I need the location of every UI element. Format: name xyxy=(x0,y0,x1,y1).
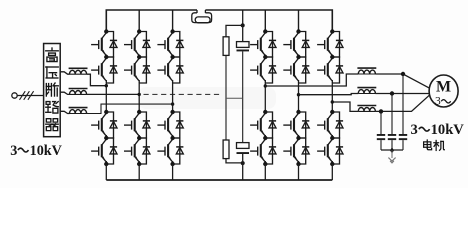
wire phase C to leg 3 midpoint xyxy=(87,104,174,113)
wire filter cap 1 drop xyxy=(380,111,382,134)
node inverter leg 1 mid-lower xyxy=(263,136,267,140)
node inverter leg 3 bottom xyxy=(330,162,334,166)
wire input line to breaker xyxy=(17,95,44,97)
wire cap string middle xyxy=(242,51,244,142)
wire rectifier leg 1 to bottom bus xyxy=(105,164,107,180)
wire bottom DC bus xyxy=(106,179,332,181)
IGBT rectifier leg 1 V4 with diode xyxy=(91,138,117,164)
wire inverter leg 1 midpoint xyxy=(264,83,266,112)
node inverter leg 1 phase tap xyxy=(264,84,267,87)
wire inverter leg 3 top xyxy=(331,10,333,32)
node inverter leg 1 mid-upper xyxy=(263,55,267,59)
node rectifier leg 3 mid-lower xyxy=(170,136,174,140)
node rectifier leg 1 mid-upper xyxy=(104,55,108,59)
wire inverter leg 2 midpoint xyxy=(298,83,300,112)
node rectifier leg 2 bottom xyxy=(137,162,141,166)
IGBT rectifier leg 2 V3 with diode xyxy=(124,112,150,138)
wire resistor string bottom xyxy=(226,159,243,163)
wire rectifier leg 2 top xyxy=(138,10,140,32)
node rectifier leg 3 upper xyxy=(170,29,174,33)
svg-text:M: M xyxy=(436,78,451,95)
output reactor L4 xyxy=(358,70,375,74)
wire neutral midpoint link xyxy=(226,97,243,99)
node inverter leg 2 mid-upper xyxy=(296,55,300,59)
IGBT inverter leg 3 V2 with diode xyxy=(317,57,343,83)
wire rectifier leg 1 midpoint xyxy=(105,83,107,112)
input reactor L1 xyxy=(70,70,87,74)
IGBT inverter leg 3 V3 with diode xyxy=(317,112,343,138)
node inverter leg 3 upper xyxy=(330,29,334,33)
node phase W filter tap xyxy=(379,109,383,113)
three-phase slash marks xyxy=(20,91,34,100)
svg-text:10kV: 10kV xyxy=(431,122,465,138)
IGBT rectifier leg 3 V4 with diode xyxy=(157,138,183,164)
node rectifier leg 2 mid-lower xyxy=(137,136,141,140)
fuse FU on DC bus xyxy=(192,10,212,23)
node rectifier leg 2 lower-top xyxy=(137,110,141,114)
node inverter leg 2 lower-top xyxy=(296,110,300,114)
wire phase A to leg 1 midpoint xyxy=(87,74,107,86)
IGBT inverter leg 3 V4 with diode xyxy=(317,138,343,164)
text glyph ya xyxy=(46,67,58,78)
wire rectifier leg 3 midpoint xyxy=(172,83,174,112)
text glyph qi xyxy=(46,119,58,131)
node inverter leg 2 upper xyxy=(296,29,300,33)
wire cap string top xyxy=(242,25,244,41)
IGBT rectifier leg 2 V2 with diode xyxy=(124,57,150,83)
wire inverter leg 1 to bottom bus xyxy=(264,164,266,180)
IGBT inverter leg 3 V1 with diode xyxy=(317,32,343,58)
IGBT inverter leg 1 V2 with diode xyxy=(250,57,276,83)
wire phase B to leg 2 midpoint xyxy=(87,93,140,95)
node inverter leg 3 mid-lower xyxy=(330,136,334,140)
wire breaker lead 3 xyxy=(60,111,69,113)
svg-text:3: 3 xyxy=(10,143,17,159)
IGBT inverter leg 2 V3 with diode xyxy=(283,112,309,138)
motor M 3-phase xyxy=(429,75,458,107)
resistor R lower (balancing) xyxy=(223,140,229,159)
input terminal circle xyxy=(12,93,17,98)
IGBT inverter leg 1 V4 with diode xyxy=(250,138,276,164)
node phase V filter tap xyxy=(390,91,394,95)
node DC+ junction xyxy=(241,23,245,27)
resistor R upper (balancing) xyxy=(223,37,229,56)
wire inverter leg 2 to bottom bus xyxy=(298,164,300,180)
node inverter leg 2 mid-lower xyxy=(296,136,300,140)
IGBT rectifier leg 1 V3 with diode xyxy=(91,112,117,138)
wire inverter phase U xyxy=(265,74,358,86)
wire rectifier leg 3 to bottom bus xyxy=(172,164,174,180)
svg-text:3: 3 xyxy=(435,96,441,108)
node rectifier leg 1 bottom xyxy=(104,162,108,166)
wire inverter phase V xyxy=(299,94,359,95)
wire DC link feed from bus xyxy=(242,10,244,25)
node rectifier leg 2 mid-upper xyxy=(137,55,141,59)
node rectifier leg 1 upper xyxy=(104,29,108,33)
IGBT rectifier leg 1 V2 with diode xyxy=(91,57,117,83)
input reactor L2 xyxy=(70,91,87,95)
ground symbol xyxy=(388,158,395,163)
node rectifier leg 1 lower-top xyxy=(104,110,108,114)
node inverter leg 2 phase tap xyxy=(297,93,300,96)
wire inverter phase W xyxy=(332,102,358,111)
wire phase V to motor xyxy=(375,93,429,95)
node rectifier leg 2 phase tap xyxy=(138,93,141,96)
node inverter leg 2 bottom xyxy=(296,162,300,166)
IGBT rectifier leg 3 V2 with diode xyxy=(157,57,183,83)
wire rectifier leg 2 to bottom bus xyxy=(138,164,140,180)
output reactor L6 xyxy=(358,107,375,111)
wire filter cap 3 to common xyxy=(402,140,404,150)
svg-text:3: 3 xyxy=(411,122,418,138)
IGBT rectifier leg 2 V4 with diode xyxy=(124,138,150,164)
wire inverter leg 3 midpoint xyxy=(331,83,333,112)
wire ground stem xyxy=(391,150,393,158)
node inverter leg 1 upper xyxy=(263,29,267,33)
node inverter leg 3 lower-top xyxy=(330,110,334,114)
node rectifier leg 1 phase tap xyxy=(105,84,108,87)
text glyph ji (motor label) xyxy=(434,140,444,150)
IGBT rectifier leg 1 V1 with diode xyxy=(91,32,117,58)
capacitor C upper (DC link) xyxy=(237,42,250,48)
wire top DC bus (left of fuse) xyxy=(106,10,197,32)
IGBT rectifier leg 3 V1 with diode xyxy=(157,32,183,58)
wire breaker lead 1 xyxy=(60,72,69,74)
node phase U filter tap xyxy=(401,72,405,76)
wire phase U to motor xyxy=(375,74,429,88)
wire phase W to motor xyxy=(375,95,429,112)
node rectifier leg 3 lower-top xyxy=(170,110,174,114)
node inverter leg 3 mid-upper xyxy=(330,55,334,59)
IGBT inverter leg 2 V1 with diode xyxy=(283,32,309,58)
svg-text:10kV: 10kV xyxy=(30,143,63,159)
wire neutral dashed line xyxy=(144,93,222,95)
wire filter common xyxy=(381,149,403,151)
text glyph dian (motor label) xyxy=(424,140,432,150)
node rectifier leg 2 upper xyxy=(137,29,141,33)
node rectifier leg 3 mid-upper xyxy=(170,55,174,59)
wire rectifier leg 1 top xyxy=(105,10,107,32)
node filter star point xyxy=(390,147,394,153)
text glyph lu xyxy=(46,102,58,114)
node rectifier leg 1 mid-lower xyxy=(104,136,108,140)
node inverter leg 1 lower-top xyxy=(263,110,267,114)
wire top DC bus (right of fuse) xyxy=(205,10,332,32)
node DC- junction xyxy=(241,161,245,165)
IGBT rectifier leg 2 V1 with diode xyxy=(124,32,150,58)
capacitor C2 output filter xyxy=(388,134,396,136)
IGBT rectifier leg 3 V3 with diode xyxy=(157,112,183,138)
capacitor C3 output filter xyxy=(399,134,407,136)
capacitor C lower (DC link) xyxy=(237,143,250,149)
wire inverter leg 1 top xyxy=(264,10,266,32)
wire rectifier leg 3 top xyxy=(172,10,174,32)
text glyph gao xyxy=(46,48,58,62)
node rectifier leg 3 bottom xyxy=(170,162,174,166)
wire breaker lead 2 xyxy=(60,92,69,94)
node rectifier leg 3 phase tap xyxy=(171,102,174,105)
IGBT inverter leg 2 V2 with diode xyxy=(283,57,309,83)
wire filter cap 2 drop xyxy=(391,94,393,135)
IGBT inverter leg 2 V4 with diode xyxy=(283,138,309,164)
input reactor L3 xyxy=(70,110,87,114)
IGBT inverter leg 1 V3 with diode xyxy=(250,112,276,138)
wire rectifier leg 2 midpoint xyxy=(138,83,140,112)
node inverter leg 3 phase tap xyxy=(331,100,334,103)
wire filter cap 1 to common xyxy=(380,140,382,150)
output reactor L5 xyxy=(358,90,375,94)
wire inverter leg 2 top xyxy=(298,10,300,32)
capacitor C1 output filter xyxy=(377,134,385,136)
IGBT inverter leg 1 V1 with diode xyxy=(250,32,276,58)
wire cap string bottom xyxy=(242,154,244,180)
wire filter cap 3 drop xyxy=(402,74,404,134)
wire resistor string middle xyxy=(225,55,227,140)
wire filter cap 2 to common xyxy=(391,140,393,150)
node inverter leg 1 bottom xyxy=(263,162,267,166)
wire branch to resistor string xyxy=(226,25,243,36)
wire inverter leg 3 to bottom bus xyxy=(331,164,333,180)
HV circuit breaker box xyxy=(44,44,61,137)
text glyph duan xyxy=(46,83,58,96)
